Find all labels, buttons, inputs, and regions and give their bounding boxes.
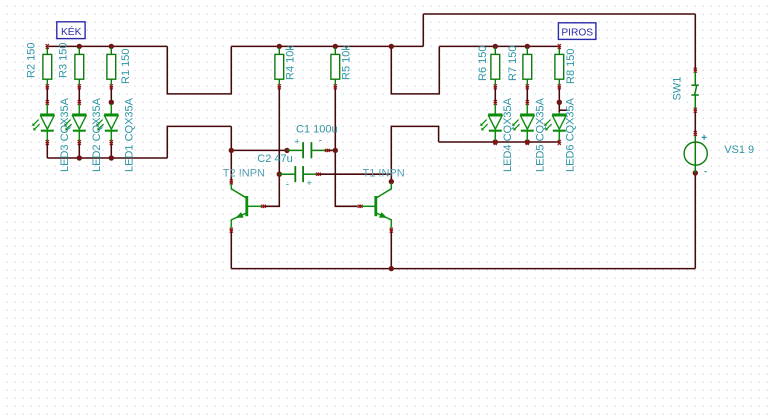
wire VS1 to bottom rail	[694, 173, 696, 269]
wire R8 to LED6	[558, 87, 560, 102]
wire LED2 bottom	[78, 144, 80, 158]
label LED6 CQX35A	[564, 97, 576, 172]
junction LED1 top	[109, 100, 114, 105]
label R1 150	[120, 49, 132, 84]
svg-text:C2 47u: C2 47u	[257, 153, 292, 165]
junction R7 top	[525, 44, 530, 49]
pin x R2 bottom	[46, 84, 49, 89]
junction C1 left lead	[284, 148, 289, 153]
label C1 100u	[296, 124, 338, 136]
pin x LED5 top	[526, 100, 529, 105]
pin x R1 bottom	[110, 84, 113, 89]
svg-text:LED6 CQX35A: LED6 CQX35A	[564, 97, 576, 172]
label PIROS text	[561, 27, 593, 38]
label C2 minus	[286, 180, 289, 191]
svg-text:LED5 CQX35A: LED5 CQX35A	[534, 97, 546, 172]
label C2 plus	[307, 178, 312, 188]
wire left LED bottom rail	[47, 157, 167, 159]
wire T2 emitter drop	[230, 230, 232, 269]
LED4	[480, 104, 502, 141]
pin x LED6 bottom	[558, 140, 561, 145]
pin x R3 bottom	[78, 84, 81, 89]
junction LED6 top	[557, 100, 562, 105]
pin x LED2 bottom	[78, 140, 81, 145]
wire right rail branch step	[391, 46, 439, 94]
label KEK box	[57, 22, 85, 39]
label LED4 CQX35A	[502, 97, 514, 172]
svg-text:R1 150: R1 150	[120, 49, 132, 84]
svg-text:R5 10k: R5 10k	[340, 45, 352, 80]
LED3	[32, 104, 54, 141]
label VS1 9	[724, 144, 754, 156]
junction LED2 rail	[77, 155, 82, 160]
wire R5 to T1 base	[335, 87, 357, 206]
label C2 47u	[257, 153, 292, 165]
wire T2 collector riser	[230, 126, 232, 181]
svg-text:KÉK: KÉK	[61, 25, 82, 38]
pin x R2 top	[46, 44, 49, 49]
wire LED3 bottom	[46, 144, 48, 158]
junction T1 emitter on bottom rail	[389, 266, 394, 271]
wire top long rail	[423, 13, 695, 15]
junction C1 tap T2 collector	[229, 148, 234, 153]
junction R3 top	[77, 44, 82, 49]
svg-text:R3 150: R3 150	[57, 43, 69, 78]
junction LED4 rail	[493, 139, 498, 144]
svg-text:T2 !NPN: T2 !NPN	[223, 168, 265, 180]
wire down to SW1	[694, 14, 696, 69]
wire middle top rail	[231, 45, 423, 47]
transistor T1	[361, 183, 391, 228]
LED6	[544, 112, 566, 141]
resistor R5	[331, 48, 340, 85]
pin x R8 bottom	[558, 84, 561, 89]
resistor R1	[107, 48, 116, 85]
pin x LED4 top	[494, 100, 497, 105]
svg-text:LED3 CQX35A: LED3 CQX35A	[59, 97, 71, 172]
LED5	[512, 104, 534, 141]
pin x T2 emitter	[230, 228, 233, 233]
wire LED6 top segment	[558, 102, 560, 112]
junction C2 left on R4	[277, 172, 282, 177]
svg-text:-: -	[286, 180, 289, 191]
pin x R5 bottom	[334, 84, 337, 89]
LED1	[96, 104, 118, 141]
svg-text:R2 150: R2 150	[25, 43, 37, 78]
label R2 150	[25, 43, 37, 78]
capacitor C2	[279, 166, 318, 182]
wire C1 right to R5 node	[327, 149, 335, 151]
pin x C2 right	[316, 173, 321, 176]
wire R1 to LED1	[110, 87, 112, 102]
label SW1	[671, 77, 683, 101]
resistor R4	[275, 48, 284, 85]
transistor T2	[231, 183, 261, 228]
junction VS1 bottom	[693, 170, 698, 175]
resistor R3	[75, 48, 84, 85]
VS1 plus sign	[702, 135, 707, 140]
label T1 NPN	[363, 168, 405, 180]
wire bottom rail	[231, 268, 695, 270]
wire T1 collector to right LED rail	[391, 126, 438, 181]
label R3 150	[57, 43, 69, 78]
svg-text:-: -	[319, 136, 322, 147]
pin x SW1 bottom	[694, 108, 697, 113]
junction R1 top	[109, 44, 114, 49]
svg-text:R4 10k: R4 10k	[284, 45, 296, 80]
svg-text:C1 100u: C1 100u	[296, 124, 338, 136]
label LED3 CQX35A	[59, 97, 71, 172]
wire left LED rail step up	[167, 126, 231, 158]
svg-text:+: +	[307, 178, 312, 188]
pin x VS1 top	[694, 131, 697, 136]
wire SW1 to VS1	[694, 111, 696, 133]
pin x R8 top	[558, 44, 561, 49]
junction right branch	[389, 44, 394, 49]
pin x R6 bottom	[494, 84, 497, 89]
wire R4 to T2 base	[265, 87, 279, 206]
svg-text:LED1 CQX35A: LED1 CQX35A	[123, 97, 135, 172]
wire R3 to LED2	[78, 87, 80, 102]
pin x SW1 top	[694, 68, 697, 73]
label C1 minus	[319, 136, 322, 147]
svg-text:PIROS: PIROS	[561, 27, 593, 38]
resistor R6	[491, 48, 500, 85]
capacitor C1	[287, 142, 327, 158]
wire R6 to LED4	[494, 87, 496, 102]
pin x LED5 bottom	[526, 140, 529, 145]
svg-text:LED2 CQX35A: LED2 CQX35A	[91, 97, 103, 172]
wire right top rail	[439, 45, 559, 47]
label LED2 CQX35A	[91, 97, 103, 172]
junction C1 right on R5	[333, 148, 338, 153]
VS1 minus sign	[704, 171, 706, 173]
pin x T2 base	[261, 205, 266, 208]
resistor R8	[555, 48, 564, 85]
svg-text:SW1: SW1	[671, 77, 683, 101]
label R6 150	[477, 46, 489, 81]
pin x LED1 bottom	[110, 140, 113, 145]
svg-text:R7 150: R7 150	[507, 46, 519, 81]
pin x T1 base	[358, 205, 363, 208]
junction R4 top	[277, 44, 282, 49]
label LED5 CQX35A	[534, 97, 546, 172]
wire right LED bottom rail	[439, 141, 560, 143]
wire left top rail	[47, 45, 167, 47]
junction R5 top	[333, 44, 338, 49]
wire LED6 stub	[559, 109, 567, 111]
LED2	[64, 104, 86, 141]
wire C1 left branch	[231, 149, 287, 151]
junction T1 collector node	[389, 179, 394, 184]
svg-text:LED4 CQX35A: LED4 CQX35A	[502, 97, 514, 172]
svg-text:R6 150: R6 150	[477, 46, 489, 81]
pin x T2 collector	[230, 179, 233, 184]
pin x LED2 top	[78, 100, 81, 105]
wire R2 to LED3	[46, 87, 48, 102]
junction LED5 rail	[525, 139, 530, 144]
junction R6 top	[493, 44, 498, 49]
svg-text:VS1 9: VS1 9	[724, 144, 754, 156]
resistor R7	[523, 48, 532, 85]
voltage source VS1	[684, 134, 707, 173]
wire left rail step down	[167, 46, 231, 94]
label R8 150	[565, 49, 577, 84]
pin x C1 right	[325, 149, 330, 152]
label PIROS box	[558, 23, 596, 40]
label KEK text	[61, 25, 82, 38]
svg-text:T1 !NPN: T1 !NPN	[363, 168, 405, 180]
pin x R4 bottom	[278, 84, 281, 89]
label R5 10k	[340, 45, 352, 80]
wire LED1 bottom	[110, 144, 112, 158]
svg-text:R8 150: R8 150	[565, 49, 577, 84]
label T2 NPN	[223, 168, 265, 180]
label R7 150	[507, 46, 519, 81]
wire riser to top	[422, 14, 424, 46]
pin x R7 bottom	[526, 84, 529, 89]
wire C2 right to T1 collector	[319, 174, 392, 181]
label LED1 CQX35A	[123, 97, 135, 172]
wire R7 to LED5	[526, 87, 528, 102]
pin x LED3 bottom	[46, 140, 49, 145]
junction LED1 rail	[109, 155, 114, 160]
label R4 10k	[284, 45, 296, 80]
wire T1 emitter drop	[390, 230, 392, 269]
pin x LED3 top	[46, 100, 49, 105]
svg-text:+: +	[295, 137, 300, 147]
resistor R2	[43, 48, 52, 85]
pin x T1 emitter	[390, 228, 393, 233]
label C1 plus	[295, 137, 300, 147]
switch SW1	[691, 71, 699, 109]
pin x LED4 bottom	[494, 140, 497, 145]
